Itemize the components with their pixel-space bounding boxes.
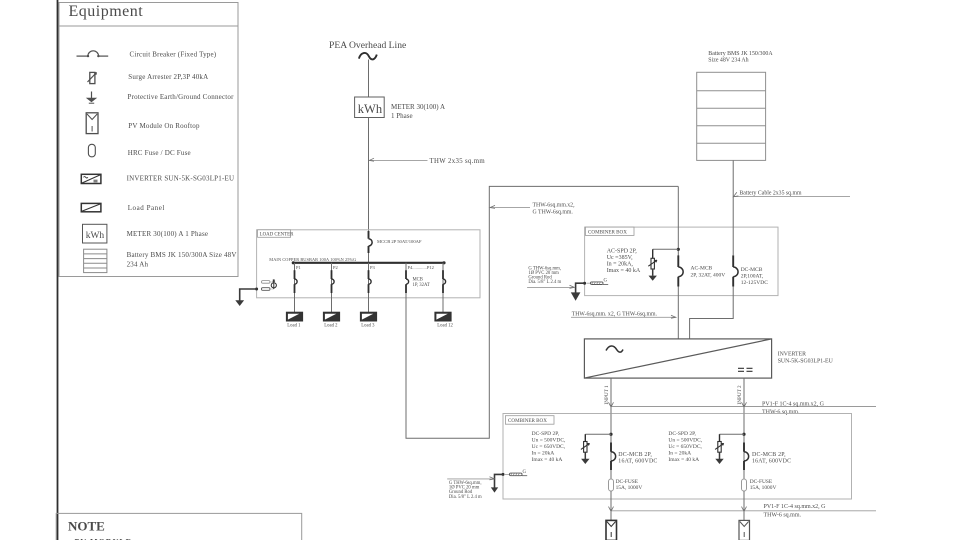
svg-text:In = 20kA,: In = 20kA, xyxy=(607,261,634,267)
note box xyxy=(56,513,302,540)
wire battery cable xyxy=(732,160,734,255)
wire branch P3 xyxy=(368,263,370,312)
meter kWh box xyxy=(355,97,385,118)
svg-text:Battery BMS JK 150/300A Size 4: Battery BMS JK 150/300A Size 48V xyxy=(127,251,237,259)
svg-text:P4.............P12: P4.............P12 xyxy=(408,265,434,270)
svg-text:AC-MCB: AC-MCB xyxy=(691,266,713,272)
PV module string 1 xyxy=(606,520,617,540)
node SPD tap string 1 xyxy=(609,433,612,436)
svg-text:Battery Cable 2x35 sq.mm: Battery Cable 2x35 sq.mm xyxy=(739,190,802,196)
svg-text:Uc = 650VDC,: Uc = 650VDC, xyxy=(532,444,566,450)
svg-text:PV1-F 1C-4 sq.mm.x2, G: PV1-F 1C-4 sq.mm.x2, G xyxy=(764,504,827,510)
svg-text:METER 30(100) A 1 Phase: METER 30(100) A 1 Phase xyxy=(127,230,209,238)
DC combiner box xyxy=(503,414,852,500)
ground wire DC box xyxy=(491,474,503,492)
AC box ground bar G xyxy=(583,279,608,285)
svg-text:Dia. 5/8" L 2.4 m: Dia. 5/8" L 2.4 m xyxy=(449,495,482,500)
wire to AC-SPD xyxy=(653,248,679,250)
wire branch P2 xyxy=(331,263,333,312)
leader DC box ground xyxy=(447,477,494,480)
svg-text:PV1-F 1C-4 sq.mm.x2, G: PV1-F 1C-4 sq.mm.x2, G xyxy=(762,401,825,407)
legend inverter symbol xyxy=(81,174,101,183)
string 2 wire xyxy=(743,414,745,480)
svg-text:COMBINER BOX: COMBINER BOX xyxy=(588,230,627,236)
legend circuit breaker symbol xyxy=(77,51,109,57)
ground DC-SPD 1 xyxy=(581,452,589,464)
surge arrester DC-SPD 2 xyxy=(715,442,724,453)
svg-text:P1: P1 xyxy=(296,265,301,270)
wire PEA to meter xyxy=(368,60,370,98)
leader PV1-F upper xyxy=(609,402,877,407)
svg-text:Uc = 650VDC,: Uc = 650VDC, xyxy=(668,444,702,450)
svg-text:NOTE: NOTE xyxy=(68,519,105,534)
svg-text:Battery BMS JK 150/300A: Battery BMS JK 150/300A xyxy=(708,51,773,57)
svg-text:INVERTER SUN-5K-SG03LP1-EU: INVERTER SUN-5K-SG03LP1-EU xyxy=(127,175,235,183)
svg-text:Equipment: Equipment xyxy=(69,3,144,20)
svg-text:INPUT 2: INPUT 2 xyxy=(737,385,743,404)
svg-text:16AT, 600VDC: 16AT, 600VDC xyxy=(618,459,657,465)
svg-text:P3: P3 xyxy=(370,265,376,270)
wire to DC-SPD 1 xyxy=(585,433,611,435)
legend meter symbol xyxy=(83,224,107,243)
leader Battery Cable 2x35 sq.mm xyxy=(733,192,850,197)
svg-text:LOAD CENTER: LOAD CENTER xyxy=(260,233,295,238)
load panel Load 2 xyxy=(323,312,339,321)
svg-text:Load 3: Load 3 xyxy=(361,323,375,328)
frame border line xyxy=(57,0,59,540)
wire branch P12 xyxy=(442,263,444,312)
svg-text:DC-SPD 2P,: DC-SPD 2P, xyxy=(668,431,696,437)
breaker DC-MCB string 2 xyxy=(744,443,749,471)
string 1 wire xyxy=(610,414,612,480)
svg-text:Surge Arrester 2P,3P 40kA: Surge Arrester 2P,3P 40kA xyxy=(128,73,208,81)
wire DC-MCB to inverter xyxy=(690,287,734,339)
breaker DC-MCB 2P 100AT xyxy=(733,255,738,286)
svg-text:SUN-5K-SG03LP1-EU: SUN-5K-SG03LP1-EU xyxy=(778,359,834,365)
surge arrester DC-SPD 1 xyxy=(581,442,590,453)
svg-text:G: G xyxy=(523,470,527,475)
wire to PV module 1 xyxy=(610,511,612,521)
wire AC into box xyxy=(677,186,679,255)
svg-text:G: G xyxy=(604,279,608,284)
svg-text:In = 20kA: In = 20kA xyxy=(668,450,691,456)
svg-text:Load 1: Load 1 xyxy=(287,323,301,328)
leader THW-6sq.mm.x2 G THW-6sq.mm. (upper) xyxy=(490,205,530,208)
svg-text:DC-SPD 2P,: DC-SPD 2P, xyxy=(532,431,560,437)
svg-text:THW-6 sq.mm.: THW-6 sq.mm. xyxy=(762,409,800,415)
svg-text:DC-FUSE: DC-FUSE xyxy=(616,479,639,485)
breaker MCB P3 xyxy=(369,270,372,293)
svg-text:kWh: kWh xyxy=(86,231,105,241)
leader THW 2x35 sq.mm xyxy=(369,158,427,161)
wire AC-MCB to inverter xyxy=(677,287,679,339)
svg-text:INVERTER: INVERTER xyxy=(778,352,806,358)
load panel Load 3 xyxy=(360,312,376,321)
load panel Load 1 xyxy=(286,312,302,321)
node SPD tap xyxy=(677,248,680,251)
battery BMS JK stack xyxy=(697,72,766,160)
leader AC box ground xyxy=(527,285,574,288)
AC combiner label box xyxy=(585,227,634,235)
ground DC-SPD 2 xyxy=(715,452,723,464)
fuse DC-FUSE string 1 xyxy=(609,479,614,491)
legend ground connector symbol xyxy=(86,92,97,104)
svg-text:Imax = 40 kA: Imax = 40 kA xyxy=(532,457,563,463)
wire to PV module 2 xyxy=(743,511,745,521)
svg-text:1 Phase: 1 Phase xyxy=(391,112,413,120)
svg-text:HRC Fuse / DC Fuse: HRC Fuse / DC Fuse xyxy=(128,149,191,157)
fuse DC-FUSE string 2 xyxy=(742,479,747,491)
svg-text:Un = 500VDC,: Un = 500VDC, xyxy=(532,437,566,443)
breaker MCCB 2P 50AT/100AF xyxy=(369,231,373,253)
svg-text:DC-FUSE: DC-FUSE xyxy=(750,479,773,485)
busbar MAIN COPPER BUSBAR 100A 100%N 25%G xyxy=(292,261,446,264)
svg-text:DC-MCB 2P,: DC-MCB 2P, xyxy=(618,452,652,458)
wire INPUT 2 xyxy=(743,378,745,413)
svg-text:MCCB 2P 50AT/100AF: MCCB 2P 50AT/100AF xyxy=(377,239,422,244)
svg-text:METER 30(100) A: METER 30(100) A xyxy=(391,103,445,111)
svg-text:P2: P2 xyxy=(333,265,338,270)
breaker AC-MCB 2P 32AT 400V xyxy=(678,255,683,286)
wire branch P1 xyxy=(294,263,296,312)
AC combiner box xyxy=(585,227,778,296)
PV module string 2 xyxy=(739,520,750,540)
wire P4 route to AC combiner xyxy=(406,186,678,438)
svg-text:Circuit Breaker (Fixed Type): Circuit Breaker (Fixed Type) xyxy=(130,50,217,58)
equipment legend box xyxy=(59,3,238,277)
svg-text:Load 12: Load 12 xyxy=(437,323,453,328)
ground wire AC box xyxy=(571,283,585,301)
svg-text:THW-6sq.mm.x2,: THW-6sq.mm.x2, xyxy=(533,203,576,209)
ground wire load center xyxy=(235,289,256,306)
svg-text:Dia. 5/8" L 2.4 m: Dia. 5/8" L 2.4 m xyxy=(528,280,561,285)
svg-text:Imax = 40 kA: Imax = 40 kA xyxy=(668,457,699,463)
svg-text:INPUT 1: INPUT 1 xyxy=(604,385,610,404)
surge arrester AC-SPD xyxy=(648,258,657,269)
breaker MCB P2 xyxy=(332,270,335,293)
breaker MCB P4 with label xyxy=(405,263,407,270)
load center ground bar xyxy=(255,279,276,290)
svg-text:THW 2x35 sq.mm: THW 2x35 sq.mm xyxy=(430,158,486,165)
node SPD tap string 2 xyxy=(742,433,745,436)
wire to DC-SPD 2 xyxy=(720,433,745,435)
svg-text:1P, 32AT: 1P, 32AT xyxy=(413,283,430,288)
load panel Load 12 xyxy=(435,312,451,321)
svg-text:AC-SPD 2P,: AC-SPD 2P, xyxy=(607,249,638,255)
legend load panel symbol xyxy=(81,203,101,211)
DC combiner label box xyxy=(505,416,554,425)
svg-text:Load 2: Load 2 xyxy=(324,323,338,328)
wire INPUT 1 xyxy=(610,378,612,413)
svg-text:DC-MCB 2P,: DC-MCB 2P, xyxy=(752,452,786,458)
svg-text:2P, 32AT, 400V: 2P, 32AT, 400V xyxy=(691,272,726,278)
svg-text:15A, 1000V: 15A, 1000V xyxy=(750,485,777,491)
breaker DC-MCB string 1 xyxy=(611,443,616,471)
DC box ground bar G xyxy=(502,470,528,476)
load center box xyxy=(257,230,480,298)
svg-text:COMBINER BOX: COMBINER BOX xyxy=(508,418,547,424)
svg-text:12-125VDC: 12-125VDC xyxy=(741,280,769,286)
leader PV1-F lower xyxy=(609,507,877,512)
svg-text:DC-MCB: DC-MCB xyxy=(741,267,763,273)
svg-text:THW-6 sq.mm.: THW-6 sq.mm. xyxy=(764,512,802,518)
legend PV module symbol xyxy=(86,113,98,134)
svg-text:THW-6sq.mm. x2, G THW-6sq.mm.: THW-6sq.mm. x2, G THW-6sq.mm. xyxy=(572,311,658,317)
legend surge arrester symbol xyxy=(88,72,97,83)
breaker MCB P1 xyxy=(295,270,298,293)
svg-text:15A, 1000V: 15A, 1000V xyxy=(616,485,643,491)
svg-text:In = 20kA: In = 20kA xyxy=(532,450,555,456)
svg-text:Imax = 40 kA: Imax = 40 kA xyxy=(607,268,641,274)
ground AC-SPD xyxy=(649,269,657,281)
svg-text:234 Ah: 234 Ah xyxy=(127,261,149,269)
svg-text:Size 48V 234 Ah: Size 48V 234 Ah xyxy=(708,58,748,64)
wire meter to load center xyxy=(368,118,370,236)
svg-text:16AT, 600VDC: 16AT, 600VDC xyxy=(752,459,791,465)
legend battery symbol xyxy=(84,249,107,272)
svg-text:Load Panel: Load Panel xyxy=(128,204,165,212)
inverter SUN-5K-SG03LP1-EU xyxy=(584,339,771,378)
svg-text:Un = 500VDC,: Un = 500VDC, xyxy=(668,437,702,443)
svg-text:Uc =385V,: Uc =385V, xyxy=(607,255,633,261)
svg-text:PEA Overhead Line: PEA Overhead Line xyxy=(329,40,406,51)
load center label box xyxy=(258,230,295,238)
PEA source tilde symbol xyxy=(359,53,377,59)
breaker MCB P12 xyxy=(443,270,446,293)
svg-text:Protective Earth/Ground Connec: Protective Earth/Ground Connector xyxy=(128,93,235,101)
svg-text:2P,100AT,: 2P,100AT, xyxy=(741,273,764,279)
legend HRC fuse symbol xyxy=(88,144,95,157)
svg-text:kWh: kWh xyxy=(358,102,383,116)
svg-text:G THW-6sq.mm.: G THW-6sq.mm. xyxy=(533,210,574,216)
svg-text:PV Module On Rooftop: PV Module On Rooftop xyxy=(128,122,200,130)
wire MCCB to busbar xyxy=(368,253,370,263)
svg-text:MCB: MCB xyxy=(413,278,423,283)
svg-text:MAIN COPPER BUSBAR 100A 100%N: MAIN COPPER BUSBAR 100A 100%N 25%G xyxy=(269,257,356,262)
